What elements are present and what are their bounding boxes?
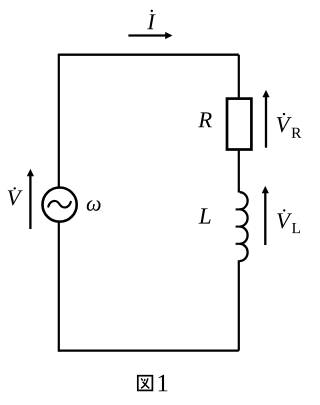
label VL — [277, 209, 300, 233]
label omega — [87, 200, 101, 211]
wire top — [59, 54, 239, 56]
wire right upper — [238, 55, 240, 193]
inductor L — [236, 192, 248, 261]
arrow VR — [262, 90, 269, 148]
arrow V source — [27, 169, 34, 229]
caption zu (figure) glyph — [138, 376, 153, 391]
label L — [199, 208, 211, 223]
arrow VL — [262, 186, 269, 245]
wire right lower — [238, 260, 240, 350]
resistor R — [227, 99, 251, 150]
label I — [147, 10, 156, 30]
current arrow I — [128, 32, 172, 39]
label R — [198, 112, 212, 127]
caption number 1 — [159, 375, 168, 392]
wire bottom — [59, 349, 239, 351]
wire left — [58, 54, 60, 352]
ac source V — [43, 188, 77, 222]
label VR — [277, 113, 302, 138]
label V source — [8, 187, 23, 205]
